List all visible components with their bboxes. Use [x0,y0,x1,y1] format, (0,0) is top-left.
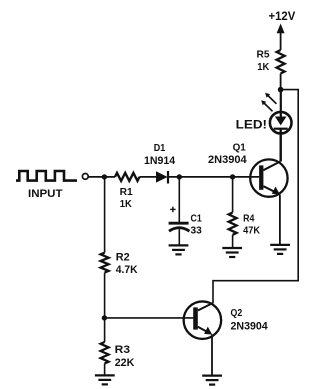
svg-text:33: 33 [191,224,202,236]
svg-text:1K: 1K [257,61,269,73]
svg-text:4.7K: 4.7K [116,264,138,276]
svg-text:Q1: Q1 [233,142,247,153]
svg-text:LED!: LED! [236,118,267,132]
svg-text:2N3904: 2N3904 [208,154,247,166]
svg-text:47K: 47K [243,224,260,236]
svg-text:1N914: 1N914 [144,155,176,167]
svg-text:2N3904: 2N3904 [231,320,269,332]
svg-text:1K: 1K [120,198,132,210]
svg-text:INPUT: INPUT [28,188,63,200]
svg-text:D1: D1 [154,142,166,154]
svg-text:R2: R2 [116,252,130,264]
svg-text:R4: R4 [243,212,254,224]
svg-text:C1: C1 [191,212,202,224]
svg-text:+12V: +12V [269,11,296,23]
svg-text:R3: R3 [115,344,130,356]
svg-text:R1: R1 [120,186,133,198]
svg-text:R5: R5 [257,49,270,61]
svg-text:22K: 22K [115,357,135,369]
svg-text:Q2: Q2 [231,308,243,319]
